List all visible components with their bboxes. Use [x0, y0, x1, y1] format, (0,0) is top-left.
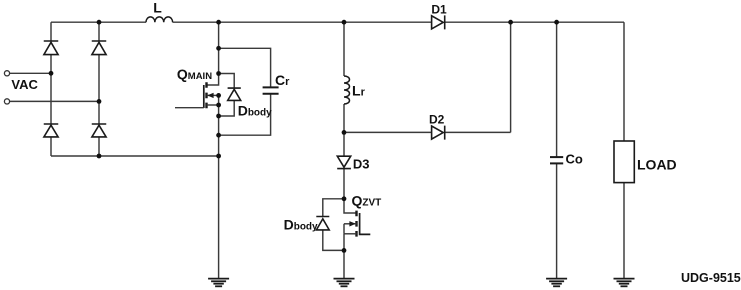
svg-text:LOAD: LOAD — [637, 157, 677, 173]
Q_MAIN source stub — [207, 104, 219, 106]
junction Q_ZVT drain / D_body — [342, 196, 347, 201]
transistor Q_MAIN — [175, 82, 219, 108]
wire bridge right leg — [98, 22, 100, 156]
diode D_body of Q_MAIN — [228, 88, 241, 100]
svg-text:UDG-95151: UDG-95151 — [681, 271, 741, 285]
ground Co — [546, 279, 567, 287]
junction top rail / bridge right leg — [97, 20, 102, 25]
wire bridge left leg — [50, 22, 52, 156]
terminal VAC bottom — [4, 99, 9, 104]
ground Q_MAIN source — [208, 279, 229, 287]
svg-text:D3: D3 — [353, 156, 370, 171]
svg-text:D2: D2 — [429, 112, 445, 126]
Q_MAIN gate bar — [203, 85, 205, 108]
inductor L — [146, 17, 173, 22]
junction Q_MAIN D_body return — [216, 114, 221, 119]
wire capacitor Cr branch bottom — [219, 94, 271, 135]
junction top rail / D2 return — [508, 20, 513, 25]
Q_MAIN body stub with arrow — [207, 94, 219, 96]
junction top rail / Q_MAIN drain — [216, 20, 221, 25]
wire D_body Q_MAIN branch top — [219, 74, 235, 89]
capacitor Cr — [263, 87, 279, 93]
wire D2 anode rail — [344, 131, 432, 133]
wire D_body Q_ZVT branch top — [323, 199, 344, 217]
wire D3 anode — [343, 132, 345, 156]
Q_ZVT body stub with arrow — [344, 223, 357, 225]
junction Q_MAIN drain / Cr tap — [216, 46, 221, 51]
junction Q_ZVT source / D_body return — [342, 248, 347, 253]
junction left leg / VAC top — [49, 71, 54, 76]
diode bridge top-left — [44, 41, 59, 55]
wire Co branch top — [556, 22, 558, 157]
wire LOAD branch bottom — [623, 183, 625, 279]
resistor LOAD — [614, 141, 634, 183]
wire D2 cathode rail — [445, 131, 511, 133]
diode D_body of Q_ZVT — [316, 217, 329, 230]
wire Co branch bottom — [556, 164, 558, 279]
Q_MAIN gate lead — [175, 107, 204, 109]
Q_ZVT source stub — [344, 233, 357, 235]
junction right leg / VAC bottom — [97, 99, 102, 104]
junction Q_MAIN body stub — [216, 93, 221, 98]
junction top rail / Co — [554, 20, 559, 25]
junction Q_MAIN bottom rail — [216, 154, 221, 159]
svg-text:D1: D1 — [431, 2, 447, 16]
diode bridge bottom-right — [92, 124, 107, 137]
wire top rail left segment — [51, 21, 146, 23]
ground LOAD — [614, 279, 635, 287]
inductor Lr — [344, 76, 350, 104]
wire VAC top terminal to left leg — [10, 72, 51, 74]
junction bottom rail / right leg — [97, 154, 102, 159]
Q_MAIN body-to-source vertical — [218, 95, 220, 105]
svg-text:L: L — [153, 0, 162, 16]
wire LOAD branch top — [623, 22, 625, 141]
junction Q_MAIN Cr return — [216, 133, 221, 138]
wire D3 cathode to Q_ZVT drain — [344, 169, 357, 213]
wire top rail right segment — [445, 21, 624, 23]
wire Lr bottom — [343, 104, 345, 132]
wire Q_MAIN drain (top rail down to channel) — [207, 22, 219, 85]
ground Q_ZVT source — [334, 279, 355, 287]
diode D3 — [337, 156, 351, 168]
wire D_body Q_ZVT branch bottom — [323, 230, 344, 251]
svg-text:Co: Co — [566, 152, 583, 167]
svg-text:VAC: VAC — [11, 77, 38, 92]
junction Q_MAIN source — [216, 103, 221, 108]
capacitor Co — [550, 157, 563, 163]
wire top rail middle segment — [173, 21, 432, 23]
diode bridge bottom-left — [44, 124, 59, 137]
terminal VAC top — [4, 71, 9, 76]
Q_MAIN channel segments — [205, 82, 207, 108]
wire D_body Q_MAIN branch bottom — [219, 100, 235, 116]
wire VAC bottom terminal to right leg — [10, 100, 99, 102]
wire capacitor Cr branch top — [219, 48, 271, 87]
junction Q_MAIN drain / D_body tap — [216, 71, 221, 76]
transistor Q_ZVT — [344, 211, 370, 237]
wire bridge bottom rail — [51, 155, 219, 157]
diode D1 — [432, 15, 445, 29]
wire D2 return riser — [510, 22, 512, 132]
diode bridge top-right — [92, 41, 107, 55]
diode D2 — [432, 126, 445, 140]
junction Lr / D2 / D3 node — [342, 130, 347, 135]
junction top rail / Lr — [342, 20, 347, 25]
wire Q_MAIN source to ground — [218, 105, 220, 279]
wire Lr top — [343, 22, 345, 76]
Q_ZVT body-to-source vertical — [343, 224, 345, 234]
Q_ZVT channel segments — [355, 211, 357, 237]
wire Q_ZVT source to ground — [343, 234, 345, 279]
Q_ZVT gate bar and lead — [360, 213, 371, 234]
